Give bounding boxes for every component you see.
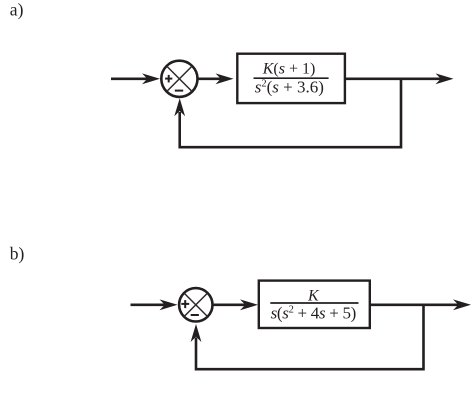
summing junction (a)	[161, 61, 197, 97]
plus sign (a)	[165, 75, 172, 83]
feedback arrowhead (a)	[174, 98, 185, 116]
wire junction to block (a)	[198, 78, 223, 81]
wire block to output (b)	[370, 303, 460, 306]
svg-text:b): b)	[10, 243, 25, 263]
block G1 K(s+1)/s^2(s+3.6)	[237, 54, 345, 103]
minus sign (b)	[191, 314, 199, 316]
wire block to output (a)	[345, 78, 442, 81]
fraction bar (b)	[270, 302, 358, 304]
block G2 K/s(s^2+4s+5)	[259, 281, 370, 328]
arrowhead input (a)	[142, 73, 160, 84]
wire input (b)	[131, 303, 167, 306]
arrowhead at block (a)	[216, 73, 234, 84]
arrowhead at block (b)	[240, 299, 258, 310]
feedback wire (b)	[196, 304, 424, 370]
arrowhead output (b)	[453, 299, 471, 310]
feedback arrowhead (b)	[191, 324, 202, 342]
svg-text:s(s2 + 4s + 5): s(s2 + 4s + 5)	[271, 304, 356, 323]
svg-text:K(s + 1): K(s + 1)	[262, 61, 316, 78]
arrowhead input (b)	[160, 299, 178, 310]
arrowhead output (a)	[436, 73, 454, 84]
wire junction to block (b)	[213, 303, 247, 306]
svg-text:a): a)	[10, 0, 24, 20]
svg-text:K: K	[307, 288, 320, 305]
summing junction (b)	[179, 288, 212, 321]
fraction bar (a)	[254, 77, 329, 79]
feedback wire (a)	[180, 78, 401, 148]
wire input (a)	[111, 78, 149, 81]
minus sign (a)	[175, 90, 183, 92]
plus sign (b)	[181, 300, 189, 308]
